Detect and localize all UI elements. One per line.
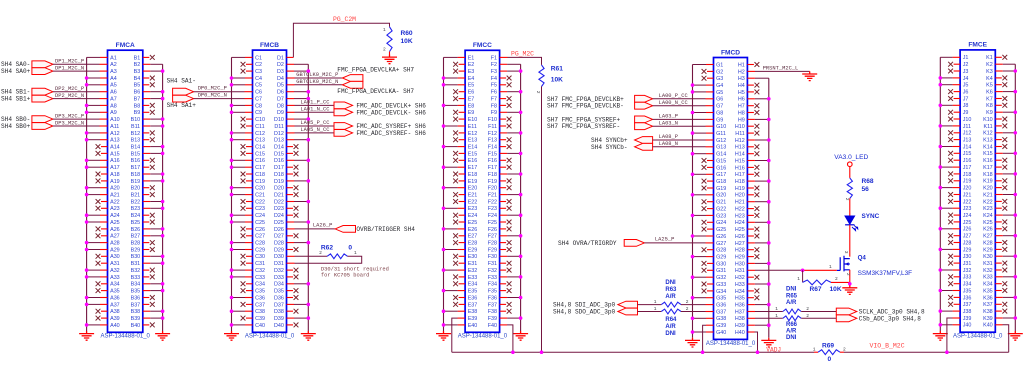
no-connect pin B17 [143, 166, 150, 168]
svg-text:E17: E17 [468, 165, 478, 171]
svg-text:B32: B32 [131, 268, 141, 274]
wire pin J14 to ground bus [953, 146, 961, 148]
svg-text:F14: F14 [488, 145, 497, 151]
svg-text:A40: A40 [110, 323, 120, 329]
no-connect pin E37 [459, 303, 466, 305]
svg-text:F20: F20 [488, 186, 497, 192]
svg-text:G10: G10 [716, 124, 726, 130]
wire pin C1 to ground bus [245, 56, 253, 58]
no-connect pin G22 [707, 208, 714, 210]
no-connect pin H17 [747, 173, 754, 175]
wire pin K18 to ground bus [995, 173, 1003, 175]
no-connect pin B20 [143, 187, 150, 189]
junction H39 [767, 323, 771, 327]
junction B27 [161, 234, 165, 238]
svg-text:J22: J22 [963, 199, 972, 205]
svg-text:J12: J12 [963, 131, 972, 137]
wire pin H27 to ground bus [747, 242, 755, 244]
svg-text:SH4 OVRA/TRIGRDY: SH4 OVRA/TRIGRDY [558, 240, 617, 247]
wire R67 to Q4 source node [831, 281, 850, 283]
svg-text:C18: C18 [255, 172, 265, 178]
junction A28 [85, 241, 89, 245]
svg-text:H37: H37 [735, 309, 745, 315]
junction C17 [230, 165, 234, 169]
wire pin C12 to ground bus [245, 132, 253, 134]
no-connect pin K17 [995, 166, 1002, 168]
svg-text:D4: D4 [277, 76, 284, 82]
wire pin F3 to ground bus [500, 70, 508, 72]
wire pin H30 to ground bus [747, 262, 755, 264]
svg-text:J29: J29 [963, 247, 972, 253]
svg-text:B13: B13 [131, 138, 141, 144]
no-connect pin K1 [995, 56, 1002, 58]
junction gate node [801, 269, 805, 273]
junction E40 [442, 323, 446, 327]
wire pin C5 to ground bus [245, 84, 253, 86]
svg-text:C39: C39 [255, 316, 265, 322]
svg-text:A3: A3 [110, 69, 117, 75]
no-connect pin E24 [459, 214, 466, 216]
wire pin C32 to ground bus [245, 269, 253, 271]
svg-text:F38: F38 [488, 309, 497, 315]
wire pin K33 to ground bus [995, 276, 1003, 278]
junction F9 [519, 111, 523, 115]
wire pin H15 to ground bus [747, 160, 755, 162]
off-page flag FMC_FPGA_DEVCLKA- SH7 [342, 81, 363, 88]
svg-text:K13: K13 [983, 138, 993, 144]
svg-text:K38: K38 [983, 309, 993, 315]
svg-text:B5: B5 [134, 83, 141, 89]
no-connect pin K20 [995, 187, 1002, 189]
no-connect pin B13 [143, 139, 150, 141]
junction K36 [1014, 296, 1018, 300]
no-connect pin A15 [101, 152, 108, 154]
wire pin C21 to ground bus [245, 194, 253, 196]
no-connect pin K19 [995, 180, 1002, 182]
no-connect pin E2 [459, 63, 466, 65]
junction J4 [939, 76, 943, 80]
svg-text:C7: C7 [255, 97, 262, 103]
wire pin B10 to ground bus [143, 118, 151, 120]
svg-text:C24: C24 [255, 213, 265, 219]
wire R61 to VADJ rail [541, 87, 543, 353]
no-connect pin F7 [500, 98, 507, 100]
svg-text:H16: H16 [735, 165, 745, 171]
svg-text:FMC_ADC_DEVCLK- SH6: FMC_ADC_DEVCLK- SH6 [356, 109, 426, 116]
no-connect pin G2 [707, 70, 714, 72]
wire pin B14 to ground bus [143, 146, 151, 148]
no-connect pin K37 [995, 303, 1002, 305]
svg-text:K10: K10 [983, 117, 993, 123]
wire PG_C2M from pin D1 [287, 56, 294, 58]
svg-text:1: 1 [654, 306, 657, 312]
junction A40 [85, 323, 89, 327]
no-connect pin J33 [954, 276, 961, 278]
junction G11 [691, 131, 695, 135]
svg-text:E36: E36 [468, 295, 478, 301]
wire DP0_M2C_N to pin C7 [194, 98, 245, 100]
svg-text:C32: C32 [255, 268, 265, 274]
wire pin C33 to ground bus [245, 276, 253, 278]
wire pin D39 to ground bus [287, 317, 295, 319]
svg-text:B35: B35 [131, 289, 141, 295]
no-connect pin J7 [954, 98, 961, 100]
junction D13 [307, 138, 311, 142]
svg-text:C40: C40 [255, 323, 265, 329]
junction D25 [307, 220, 311, 224]
junction F6 [519, 90, 523, 94]
svg-text:K19: K19 [983, 179, 993, 185]
wire pin B35 to ground bus [143, 290, 151, 292]
svg-text:A31: A31 [110, 261, 120, 267]
svg-text:DNI: DNI [665, 280, 676, 286]
svg-text:F19: F19 [488, 179, 497, 185]
svg-text:F26: F26 [488, 227, 497, 233]
svg-text:1: 1 [775, 313, 778, 319]
svg-text:E22: E22 [468, 199, 478, 205]
no-connect pin E10 [459, 118, 466, 120]
svg-text:A27: A27 [110, 234, 120, 240]
junction E5 [442, 83, 446, 87]
svg-text:E38: E38 [468, 309, 478, 315]
no-connect pin D40 [287, 324, 294, 326]
wire pin G1 to ground bus [706, 64, 714, 66]
svg-text:B23: B23 [131, 206, 141, 212]
no-connect pin C31 [246, 262, 253, 264]
no-connect pin H28 [747, 249, 754, 251]
svg-text:H5: H5 [738, 90, 745, 96]
wire pin C40 to ground bus [245, 324, 253, 326]
wire pin D10 to ground bus [287, 118, 295, 120]
wire pin B19 to ground bus [143, 180, 151, 182]
junction G40 [691, 330, 695, 334]
wire pin G32 to ground bus [706, 276, 714, 278]
no-connect pin E6 [459, 91, 466, 93]
junction J11 [939, 124, 943, 128]
svg-text:G17: G17 [716, 172, 726, 178]
junction K21 [1014, 193, 1018, 197]
svg-text:H36: H36 [735, 303, 745, 309]
svg-text:J7: J7 [963, 96, 969, 102]
wire pin D19 to ground bus [287, 180, 295, 182]
wire pin E1 to ground bus [458, 56, 466, 58]
junction D6 [307, 90, 311, 94]
resistor R62 0 ohm [327, 254, 347, 259]
off-page flag FMC_FPGA_DEVCLKA+ SH7 [342, 75, 363, 82]
wire DP1_M2C_P to pin A2 [53, 63, 100, 65]
no-connect pin H32 [747, 276, 754, 278]
no-connect pin K31 [995, 262, 1002, 264]
no-connect pin F31 [500, 262, 507, 264]
svg-text:B21: B21 [131, 193, 141, 199]
svg-text:B6: B6 [134, 90, 141, 96]
svg-text:G23: G23 [716, 213, 726, 219]
no-connect pin C3 [246, 70, 253, 72]
junction A33 [85, 275, 89, 279]
no-connect pin A23 [101, 207, 108, 209]
svg-text:56: 56 [862, 186, 870, 193]
wire pin E32 to ground bus [458, 269, 466, 271]
no-connect pin E19 [459, 180, 466, 182]
junction B14 [161, 145, 165, 149]
svg-text:K30: K30 [983, 254, 993, 260]
svg-text:DNI: DNI [786, 286, 797, 292]
no-connect pin G16 [707, 166, 714, 168]
junction B19 [161, 179, 165, 183]
resistor R60 10K pull-down [387, 27, 392, 52]
no-connect pin J16 [954, 159, 961, 161]
svg-text:SH4 SA1-: SH4 SA1- [167, 78, 196, 85]
svg-text:E31: E31 [468, 261, 478, 267]
junction A17 [85, 165, 89, 169]
no-connect pin E18 [459, 173, 466, 175]
svg-text:D25: D25 [274, 220, 284, 226]
svg-text:B26: B26 [131, 227, 141, 233]
wire GBTCLK0_M2C_N from pin D5 [287, 84, 295, 86]
wire pin C24 to ground bus [245, 214, 253, 216]
junction A24 [85, 213, 89, 217]
svg-text:E9: E9 [468, 110, 475, 116]
svg-text:H26: H26 [735, 234, 745, 240]
no-connect pin E22 [459, 201, 466, 203]
svg-text:FMC_FPGA_DEVCLKA- SH7: FMC_FPGA_DEVCLKA- SH7 [337, 88, 414, 95]
svg-text:A13: A13 [110, 138, 120, 144]
wire pin B7 to ground bus [143, 98, 151, 100]
wire pin A29 to ground bus [100, 249, 108, 251]
junction J14 [939, 145, 943, 149]
ground symbol below FMCB left bus [224, 331, 239, 340]
svg-text:1: 1 [813, 347, 816, 353]
junction E14 [442, 145, 446, 149]
junction A16 [85, 159, 89, 163]
svg-text:F35: F35 [488, 289, 497, 295]
wire pin A36 to ground bus [100, 297, 108, 299]
svg-text:VIO_B_M2C: VIO_B_M2C [870, 343, 905, 350]
svg-text:DP3_M2C_P: DP3_M2C_P [55, 114, 84, 120]
junction C38 [230, 309, 234, 313]
no-connect pin B5 [143, 84, 150, 86]
wire pin B26 to ground bus [143, 228, 151, 230]
svg-text:C12: C12 [255, 131, 265, 137]
svg-text:D38: D38 [274, 309, 284, 315]
svg-text:G30: G30 [716, 261, 726, 267]
svg-text:FMCA: FMCA [116, 42, 135, 49]
no-connect pin J30 [954, 255, 961, 257]
svg-text:F37: F37 [488, 302, 497, 308]
junction C33 [230, 275, 234, 279]
wire pin A9 to ground bus [100, 111, 108, 113]
svg-text:F3: F3 [491, 69, 497, 75]
no-connect pin B24 [143, 214, 150, 216]
svg-text:H33: H33 [735, 282, 745, 288]
svg-text:D9: D9 [277, 110, 284, 116]
wire pin F40 to VADJ rail [500, 324, 507, 326]
svg-text:3: 3 [843, 251, 849, 254]
svg-text:DNI: DNI [665, 331, 676, 337]
svg-text:R68: R68 [862, 178, 874, 185]
wire pin G11 to ground bus [706, 132, 714, 134]
wire pin D2 to ground bus [287, 63, 295, 65]
svg-text:DP0_M2C_N: DP0_M2C_N [198, 92, 227, 98]
svg-text:H15: H15 [735, 158, 745, 164]
svg-text:D34: D34 [274, 282, 284, 288]
no-connect pin K26 [995, 228, 1002, 230]
svg-text:C34: C34 [255, 282, 265, 288]
off-page flag FMC_ADC_DEVCLK+ SH6 [334, 102, 353, 109]
wire pin D13 to ground bus [287, 139, 295, 141]
junction C12 [230, 131, 234, 135]
svg-text:F21: F21 [488, 193, 497, 199]
svg-text:R63: R63 [665, 287, 677, 293]
no-connect pin B8 [143, 104, 150, 106]
junction B34 [161, 282, 165, 286]
wire pin J17 to ground bus [953, 166, 961, 168]
svg-text:E11: E11 [468, 124, 477, 130]
junction K6 [1014, 90, 1018, 94]
svg-text:C27: C27 [255, 234, 265, 240]
svg-text:F11: F11 [488, 124, 497, 130]
svg-text:H39: H39 [735, 323, 745, 329]
wire pin H6 to ground bus [747, 98, 755, 100]
no-connect pin F34 [500, 283, 507, 285]
svg-text:F2: F2 [491, 62, 497, 68]
junction D28 [307, 241, 311, 245]
svg-text:J31: J31 [963, 261, 972, 267]
no-connect pin H26 [747, 235, 754, 237]
wire pin E5 to ground bus [458, 84, 466, 86]
svg-text:ASP-134488-01_0: ASP-134488-01_0 [245, 334, 295, 340]
svg-text:B40: B40 [131, 323, 141, 329]
svg-text:LA26_P: LA26_P [313, 223, 332, 229]
junction F18 [519, 172, 523, 176]
svg-text:A26: A26 [110, 227, 120, 233]
no-connect pin H14 [747, 153, 754, 155]
junction K12 [1014, 131, 1018, 135]
wire pin B3 to ground bus [143, 70, 151, 72]
no-connect pin D33 [287, 276, 294, 278]
no-connect pin K14 [995, 146, 1002, 148]
no-connect pin J36 [954, 296, 961, 298]
svg-text:2: 2 [835, 276, 838, 282]
junction E26 [442, 227, 446, 231]
svg-text:F7: F7 [491, 97, 497, 103]
wire pin C38 to ground bus [245, 310, 253, 312]
svg-text:A7: A7 [110, 97, 117, 103]
svg-text:B36: B36 [131, 295, 141, 301]
junction C28 [230, 241, 234, 245]
no-connect pin H4 [747, 84, 754, 86]
junction B7 [161, 97, 165, 101]
svg-text:10K: 10K [401, 38, 413, 45]
svg-text:E30: E30 [468, 254, 478, 260]
no-connect pin D17 [287, 166, 294, 168]
svg-text:B30: B30 [131, 254, 141, 260]
no-connect pin F22 [500, 201, 507, 203]
svg-text:G33: G33 [716, 282, 726, 288]
svg-text:K31: K31 [983, 261, 993, 267]
svg-text:A15: A15 [110, 151, 120, 157]
no-connect pin B21 [143, 194, 150, 196]
svg-text:2: 2 [535, 91, 541, 94]
svg-text:H7: H7 [738, 104, 745, 110]
no-connect pin E30 [459, 255, 466, 257]
svg-text:B34: B34 [131, 282, 141, 288]
junction F27 [519, 234, 523, 238]
svg-text:A38: A38 [110, 309, 120, 315]
svg-text:VADJ: VADJ [766, 346, 781, 353]
svg-text:G8: G8 [716, 110, 723, 116]
no-connect pin A31 [101, 262, 108, 264]
svg-text:K40: K40 [983, 323, 993, 329]
junction E29 [442, 248, 446, 252]
resistor R69 0 ohm VADJ to VIO_B_M2C [818, 350, 840, 355]
no-connect pin H19 [747, 187, 754, 189]
svg-text:J2: J2 [963, 62, 969, 68]
wire pin E14 to ground bus [458, 146, 466, 148]
junction J23 [939, 206, 943, 210]
wire pin K39 to ground bus [995, 317, 1003, 319]
svg-text:2: 2 [383, 47, 386, 53]
svg-text:A9: A9 [110, 110, 117, 116]
svg-text:C22: C22 [255, 199, 265, 205]
wire pin D25 to ground bus [287, 221, 295, 223]
svg-text:D29: D29 [274, 247, 284, 253]
junction F12 [519, 131, 523, 135]
wire pin E11 to ground bus [458, 125, 466, 127]
wire pin H39 to ground bus [747, 324, 755, 326]
svg-text:E10: E10 [468, 117, 478, 123]
svg-text:DP2_M2C_N: DP2_M2C_N [55, 93, 84, 99]
ground symbol below FMCA right bus [155, 331, 170, 340]
ground symbol below R60 [382, 55, 397, 64]
svg-text:C30: C30 [255, 254, 265, 260]
svg-text:J15: J15 [963, 151, 972, 157]
wire pin E29 to ground bus [458, 249, 466, 251]
svg-text:G9: G9 [716, 117, 723, 123]
svg-text:J28: J28 [963, 240, 972, 246]
junction E38 [442, 309, 446, 313]
wire pin H18 to ground bus [747, 180, 755, 182]
svg-text:K26: K26 [983, 227, 993, 233]
svg-text:J26: J26 [963, 227, 972, 233]
svg-text:H17: H17 [735, 172, 745, 178]
svg-text:A21: A21 [110, 193, 120, 199]
no-connect pin A39 [101, 317, 108, 319]
svg-text:B16: B16 [131, 158, 141, 164]
wire pin B2 to ground bus [143, 63, 151, 65]
svg-text:K20: K20 [983, 186, 993, 192]
ground symbol below FMCE left bus [933, 331, 948, 340]
wire DP3_M2C_P to pin A10 [53, 118, 100, 120]
svg-text:FMCC: FMCC [473, 42, 492, 49]
svg-text:D5: D5 [277, 83, 284, 89]
svg-text:G11: G11 [716, 131, 726, 137]
svg-text:H1: H1 [738, 62, 745, 68]
junction K33 [1014, 275, 1018, 279]
junction H27 [767, 241, 771, 245]
svg-text:A12: A12 [110, 131, 120, 137]
no-connect pin G28 [707, 249, 714, 251]
no-connect pin A35 [101, 290, 108, 292]
svg-text:2: 2 [845, 273, 851, 276]
wire pin F30 to ground bus [500, 255, 508, 257]
svg-text:F31: F31 [488, 261, 497, 267]
junction F15 [519, 152, 523, 156]
junction J8 [939, 104, 943, 108]
svg-text:D33: D33 [274, 275, 284, 281]
no-connect pin E28 [459, 242, 466, 244]
no-connect pin K16 [995, 159, 1002, 161]
